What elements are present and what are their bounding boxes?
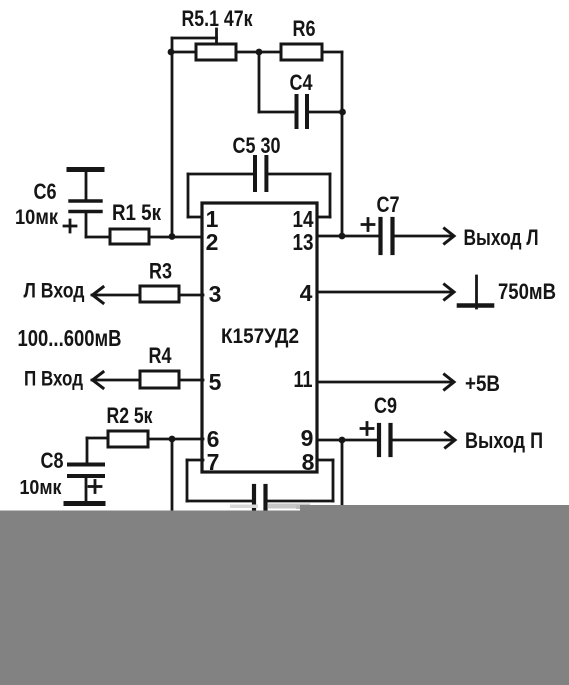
svg-text:Выход Л: Выход Л xyxy=(464,225,539,250)
svg-text:C5 30: C5 30 xyxy=(233,133,281,158)
svg-text:+5В: +5В xyxy=(465,371,500,396)
faint erased text remnants above gray edge xyxy=(230,504,312,510)
wire C4 right plate to bus B xyxy=(308,111,342,114)
node R2 / pin 6 junction xyxy=(169,436,176,443)
capacitor C4 xyxy=(290,70,314,127)
wire C5 loop left (to pin 1) xyxy=(188,174,253,217)
wire pin 9 to C9 xyxy=(317,439,377,442)
svg-text:4: 4 xyxy=(300,280,313,306)
resistor R6 xyxy=(281,16,322,60)
svg-text:10мк: 10мк xyxy=(15,206,58,229)
wire C8 to R2 xyxy=(87,437,108,440)
wire R6 right to vertical bus B xyxy=(322,51,342,54)
output arrow Выход Л xyxy=(394,225,539,250)
svg-text:2: 2 xyxy=(206,229,219,255)
svg-text:100...600мВ: 100...600мВ xyxy=(18,325,122,351)
svg-text:13: 13 xyxy=(293,229,314,255)
capacitor C10 (cut off by crop) xyxy=(254,486,266,512)
svg-text:Л Вход: Л Вход xyxy=(24,280,85,303)
capacitor C7 xyxy=(362,192,400,253)
svg-text:C6: C6 xyxy=(34,179,57,204)
wire pin 13 to C7 xyxy=(317,235,379,238)
node C4/bus B junction xyxy=(339,109,346,116)
node pin13 / bus B / C7 junction xyxy=(339,233,346,240)
level symbol 750мВ xyxy=(459,276,556,308)
wire R3 to pin 3 xyxy=(179,294,203,297)
svg-text:C7: C7 xyxy=(377,192,400,217)
svg-text:R5.1 47к: R5.1 47к xyxy=(182,6,254,31)
svg-text:C9: C9 xyxy=(374,393,397,418)
output arrow Выход П xyxy=(392,428,543,453)
capacitor C6 xyxy=(15,170,102,238)
svg-text:R4: R4 xyxy=(149,343,173,368)
wire C5 loop right (to pin 14) xyxy=(268,174,330,217)
wire left node to R5.1 left terminal xyxy=(170,51,196,54)
svg-text:7: 7 xyxy=(207,449,220,475)
node R5.1/R6 junction xyxy=(256,49,263,56)
capacitor C5 xyxy=(233,133,281,190)
node R5.1 left / bus A junction xyxy=(168,49,175,56)
node pin 9 / C9 junction xyxy=(339,437,346,444)
svg-text:R2 5к: R2 5к xyxy=(107,403,154,428)
svg-text:8: 8 xyxy=(302,449,315,475)
svg-text:3: 3 xyxy=(209,281,222,307)
wire pin 4 to 750мВ arrow xyxy=(317,285,454,300)
svg-text:R3: R3 xyxy=(149,259,172,284)
capacitor C9 xyxy=(361,393,397,455)
svg-text:C4: C4 xyxy=(290,70,314,95)
op-amp U1 К157УД2 xyxy=(202,203,317,472)
capacitor C8 xyxy=(20,438,104,504)
resistor R1 xyxy=(110,200,162,244)
svg-text:П Вход: П Вход xyxy=(24,368,83,391)
input arrow П Вход xyxy=(24,368,140,391)
wire pin 6 node down to cut edge xyxy=(171,439,174,512)
svg-text:9: 9 xyxy=(301,425,314,451)
wire R5.1 to R6 xyxy=(236,51,281,54)
svg-text:750мВ: 750мВ xyxy=(498,279,556,304)
resistor R2 xyxy=(107,403,154,447)
svg-text:11: 11 xyxy=(294,366,313,392)
wire C4 branch from R5.1/R6 junction xyxy=(259,52,293,112)
wire C6 to R1 xyxy=(86,236,110,239)
svg-text:Выход П: Выход П xyxy=(465,428,543,453)
wire vertical bus B (R6/C4 to pin 13 node) xyxy=(341,52,344,236)
svg-text:К157УД2: К157УД2 xyxy=(221,325,299,348)
svg-text:R1 5к: R1 5к xyxy=(112,200,162,225)
wire pin 7 loop (to bottom capacitor) xyxy=(187,460,252,501)
svg-text:10мк: 10мк xyxy=(20,477,63,499)
svg-text:R6: R6 xyxy=(293,16,316,41)
resistor R3 xyxy=(140,259,179,303)
node R1 / bus A / pin 2 junction xyxy=(169,233,176,240)
input arrow Л Вход xyxy=(24,280,141,304)
resistor R4 xyxy=(140,343,179,388)
wire pin 11 to +5В arrow xyxy=(317,371,500,396)
wire R2 to pin 6 xyxy=(148,438,203,441)
gray redaction block xyxy=(0,505,569,685)
wire vertical bus A (R5.1 node to pin 2 node) xyxy=(171,38,174,236)
wire R4 to pin 5 xyxy=(179,379,203,382)
resistor R5.1 xyxy=(172,6,253,60)
wire R1 to pin 2 xyxy=(149,236,203,239)
wire pin 8 loop (to bottom capacitor) xyxy=(268,460,333,501)
svg-text:C8: C8 xyxy=(41,448,64,473)
svg-text:5: 5 xyxy=(209,369,222,395)
wire pin 9 node down to cut edge xyxy=(341,440,344,512)
